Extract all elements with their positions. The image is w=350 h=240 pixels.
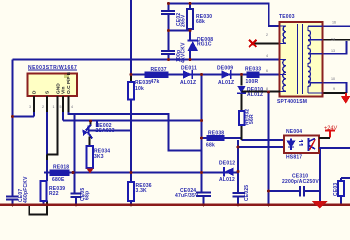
svg-text:DE009: DE009 [217, 66, 233, 72]
svg-text:2: 2 [42, 105, 44, 109]
svg-text:1: 1 [53, 105, 55, 109]
svg-text:TE003: TE003 [279, 14, 295, 20]
svg-text:R22: R22 [49, 191, 59, 197]
svg-text:2200p/AC250V: 2200p/AC250V [282, 179, 319, 185]
svg-text:6: 6 [266, 69, 268, 73]
svg-text:10k: 10k [135, 86, 144, 92]
svg-text:O.C P/F B: O.C P/F B [66, 71, 72, 94]
svg-text:9: 9 [333, 87, 335, 91]
svg-text:AL01Z: AL01Z [218, 80, 234, 86]
svg-text:RE018: RE018 [53, 165, 69, 171]
svg-text:RE033: RE033 [245, 67, 261, 73]
svg-text:3.3K: 3.3K [136, 188, 148, 194]
svg-text:RE037: RE037 [151, 67, 167, 73]
svg-text:4: 4 [266, 54, 268, 58]
svg-text:3: 3 [29, 105, 31, 109]
svg-text:68k: 68k [206, 143, 215, 149]
svg-text:Vin: Vin [61, 87, 67, 94]
svg-text:4: 4 [71, 105, 73, 109]
svg-text:NE004: NE004 [286, 129, 302, 135]
svg-text:8: 8 [266, 87, 268, 91]
svg-text:56R: 56R [249, 114, 255, 124]
svg-text:CE03: CE03 [333, 183, 339, 196]
svg-text:47k: 47k [151, 79, 160, 85]
svg-text:DE012: DE012 [219, 161, 235, 167]
svg-text:D: D [32, 90, 38, 94]
svg-text:68k: 68k [196, 19, 205, 25]
svg-text:AL01Z: AL01Z [180, 80, 196, 86]
svg-text:68p: 68p [85, 191, 91, 200]
svg-text:5: 5 [60, 105, 62, 109]
svg-text:100R: 100R [246, 79, 259, 85]
svg-text:10: 10 [331, 77, 335, 81]
svg-text:3K3: 3K3 [94, 154, 104, 160]
svg-text:14: 14 [331, 38, 335, 42]
svg-text:CE025: CE025 [244, 185, 250, 201]
svg-text:DE011: DE011 [181, 66, 197, 72]
svg-text:13: 13 [331, 49, 335, 53]
svg-text:AL01Z: AL01Z [247, 92, 263, 98]
svg-text:RE038: RE038 [208, 131, 224, 137]
svg-text:16: 16 [332, 21, 336, 25]
svg-text:2SA933: 2SA933 [96, 128, 115, 134]
svg-text:680E: 680E [52, 177, 65, 183]
svg-text:SPT4001SM: SPT4001SM [277, 99, 307, 105]
svg-text:HS817: HS817 [286, 155, 302, 161]
svg-text:265V: 265V [181, 14, 187, 27]
svg-text:RG1C: RG1C [197, 42, 212, 48]
svg-text:47uF/35V: 47uF/35V [175, 193, 199, 199]
svg-text:AL012: AL012 [219, 177, 235, 183]
svg-text:460pFCKV: 460pFCKV [23, 176, 29, 203]
svg-text:4kVCKV: 4kVCKV [181, 42, 187, 63]
svg-text:2: 2 [266, 33, 268, 37]
